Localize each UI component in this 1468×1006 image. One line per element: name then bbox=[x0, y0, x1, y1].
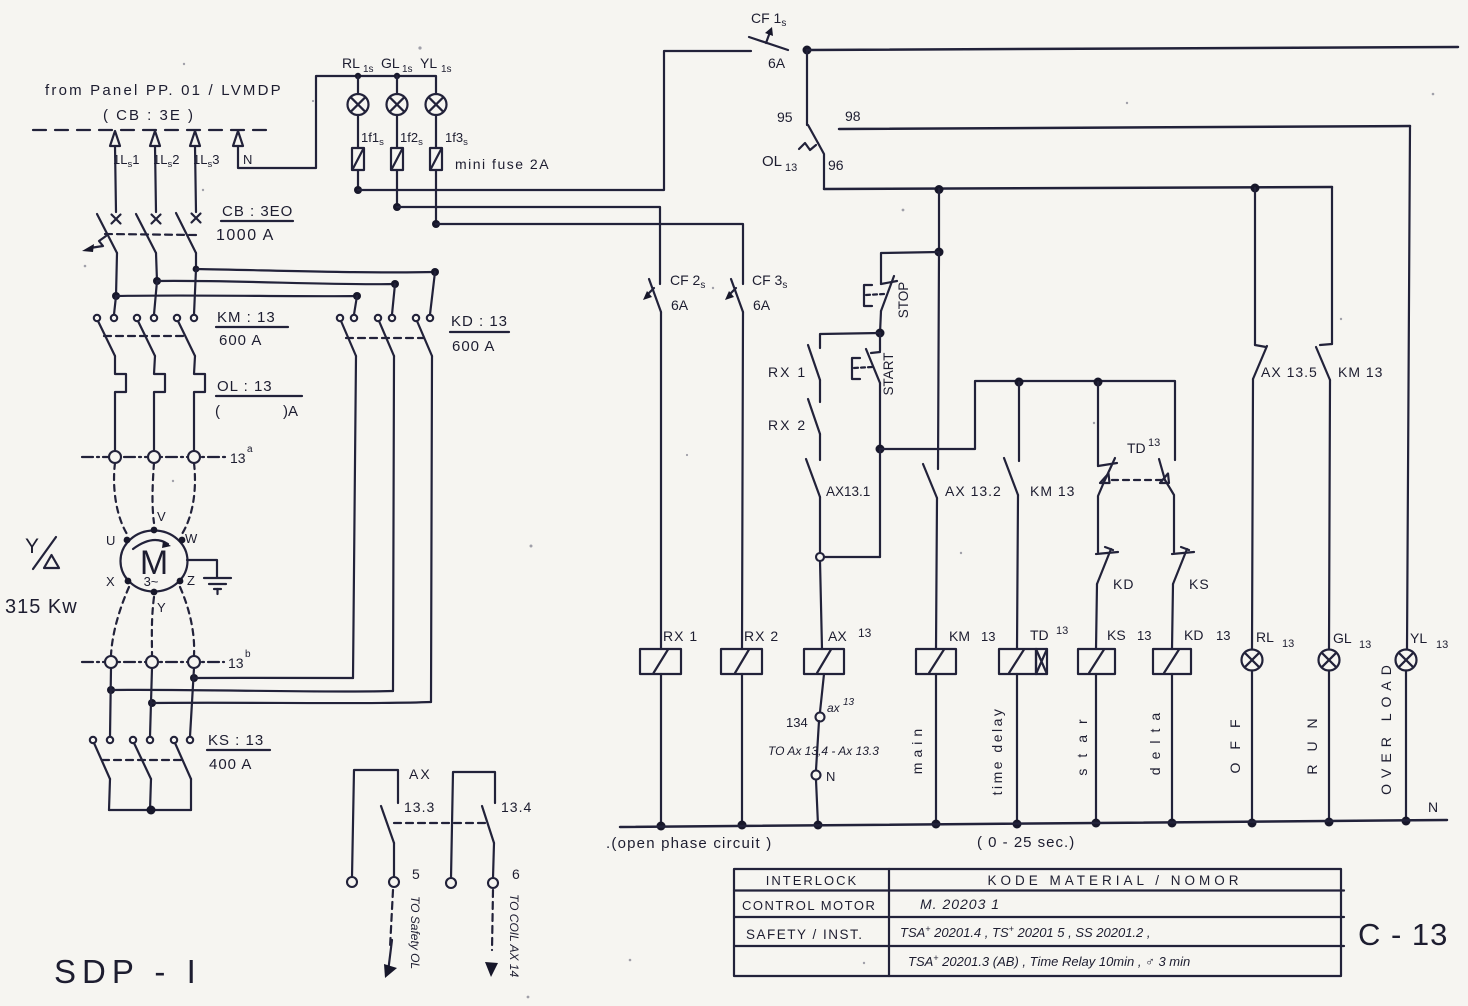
svg-text:3~: 3~ bbox=[144, 574, 159, 589]
svg-text:INTERLOCK: INTERLOCK bbox=[766, 873, 858, 888]
CB trip arrow bbox=[82, 236, 106, 252]
svg-text:5: 5 bbox=[412, 866, 420, 882]
svg-text:Y: Y bbox=[25, 535, 39, 558]
svg-text:time delay: time delay bbox=[989, 707, 1005, 796]
label OL:13 ( )A overload heaters bbox=[215, 378, 302, 420]
lamp GL1s bbox=[381, 55, 413, 148]
svg-text:GL: GL bbox=[1333, 630, 1352, 646]
contact RX1 (NO) bbox=[768, 345, 820, 402]
svg-text:13: 13 bbox=[1436, 639, 1448, 651]
svg-text:ax: ax bbox=[827, 701, 841, 715]
KS star point bus bbox=[109, 806, 191, 815]
svg-text:.(open phase circuit ): .(open phase circuit ) bbox=[606, 835, 772, 852]
wire lamp1 column to CF1s bbox=[354, 51, 751, 194]
wire rail to STOP branch bbox=[881, 189, 944, 284]
KM mechanical linkage bbox=[104, 335, 186, 337]
svg-text:13.4: 13.4 bbox=[501, 799, 532, 815]
svg-text:KD: KD bbox=[1184, 627, 1203, 643]
svg-text:b: b bbox=[245, 649, 251, 660]
svg-text:CB : 3EO: CB : 3EO bbox=[222, 203, 293, 220]
wire CB pole1 to lamp1 column bbox=[112, 292, 361, 300]
contactor coil KD13 (delta) bbox=[1147, 627, 1230, 828]
terminal row 13a bbox=[82, 444, 253, 466]
svg-text:star: star bbox=[1074, 708, 1090, 775]
fuse 1f2s bbox=[391, 130, 423, 207]
timer contact TD13 right (to KD) bbox=[1159, 459, 1174, 552]
svg-text:KM 13: KM 13 bbox=[1338, 364, 1383, 380]
svg-text:)A: )A bbox=[283, 403, 298, 420]
svg-text:V: V bbox=[157, 509, 166, 524]
svg-text:YL: YL bbox=[1410, 630, 1427, 646]
label KD:13 600A bbox=[450, 313, 509, 355]
svg-text:TO Safety OL: TO Safety OL bbox=[408, 896, 422, 969]
svg-text:1s: 1s bbox=[441, 64, 452, 75]
svg-text:13: 13 bbox=[1056, 625, 1068, 637]
svg-text:400 A: 400 A bbox=[209, 756, 252, 773]
wire lamp2 column to CF2s bbox=[393, 203, 660, 284]
svg-text:13: 13 bbox=[1148, 437, 1160, 449]
svg-text:600 A: 600 A bbox=[219, 332, 262, 349]
svg-text:RL: RL bbox=[1256, 629, 1274, 645]
svg-text:Y: Y bbox=[157, 600, 166, 615]
contactor KD:13 pole 2 bbox=[375, 284, 395, 691]
wire CF2s to coil RX1 bbox=[660, 312, 662, 649]
label KS:13 400A bbox=[207, 732, 270, 773]
svg-text:13: 13 bbox=[1216, 628, 1230, 643]
contactor coil KS13 (star) bbox=[1074, 627, 1151, 828]
svg-text:RUN: RUN bbox=[1304, 705, 1320, 774]
svg-text:delta: delta bbox=[1147, 705, 1163, 775]
svg-text:TSA+ 20201.3 (AB) , Time Re: TSA+ 20201.3 (AB) , Time Relay 10min , ♂… bbox=[908, 953, 1190, 969]
svg-text:STOP: STOP bbox=[896, 282, 911, 319]
svg-text:OVER LOAD: OVER LOAD bbox=[1378, 659, 1394, 795]
fuse 1f1s bbox=[352, 130, 384, 190]
svg-text:( 0 - 25 sec.): ( 0 - 25 sec.) bbox=[977, 834, 1075, 851]
KD mechanical linkage bbox=[346, 337, 424, 339]
terminal N below coil AX13 bbox=[812, 769, 836, 830]
timer contact TD13 left (to KS) bbox=[1098, 382, 1117, 552]
svg-text:C - 13: C - 13 bbox=[1358, 917, 1448, 952]
lamp YL13 (OVER LOAD) bbox=[1378, 630, 1448, 826]
self-hold wire START to TD/KM columns bbox=[880, 378, 1175, 461]
svg-text:TSA+ 20201.4 , TS+ 20201 5 ,: TSA+ 20201.4 , TS+ 20201 5 , SS 20201.2 … bbox=[900, 924, 1151, 940]
node 1Ls3 tap arrow bbox=[190, 131, 219, 170]
svg-text:98: 98 bbox=[845, 108, 861, 124]
svg-text:OL : 13: OL : 13 bbox=[217, 378, 273, 395]
label KM:13 600A bbox=[216, 309, 288, 349]
label CB:3EO 1000A bbox=[216, 203, 293, 244]
node N tap arrow bbox=[233, 131, 252, 167]
svg-text:START: START bbox=[881, 352, 896, 395]
label TD 13 (contact) bbox=[1127, 437, 1160, 456]
svg-text:1s: 1s bbox=[402, 64, 413, 75]
contactor KM:13 pole 2 bbox=[134, 281, 165, 451]
svg-text:TD: TD bbox=[1030, 627, 1049, 643]
node 1Ls1 tap arrow bbox=[110, 131, 139, 170]
svg-text:KD: KD bbox=[1113, 576, 1134, 592]
svg-text:KM 13: KM 13 bbox=[1030, 483, 1075, 499]
svg-text:KS: KS bbox=[1107, 627, 1126, 643]
svg-text:1000 A: 1000 A bbox=[216, 227, 275, 244]
overload relay contact OL13 95-96 bbox=[762, 50, 844, 189]
relay coil AX13 bbox=[804, 626, 872, 674]
contact KM13 aux (NO) bbox=[1004, 382, 1075, 649]
contact AX13.1 (NO) bbox=[806, 459, 870, 553]
node AX13 coil junction bbox=[816, 449, 880, 649]
svg-text:RX 1: RX 1 bbox=[768, 364, 807, 380]
terminal 134 / ax13 below coil AX13 bbox=[786, 674, 855, 770]
wire lamp3 column to CF3s bbox=[432, 220, 743, 284]
wire neutral N to lamp rail bbox=[238, 76, 436, 168]
wire CB pole3 to lamp3 column bbox=[193, 266, 439, 276]
svg-text:SAFETY / INST.: SAFETY / INST. bbox=[746, 927, 864, 942]
relay coil RX1 bbox=[640, 628, 698, 674]
lamp RL1s bbox=[342, 55, 374, 148]
circuit breaker CB:3EO pole 3 bbox=[176, 146, 201, 269]
rail 98 (overload signal) bbox=[839, 108, 1410, 129]
circuit breaker CB:3EO pole 1 bbox=[97, 146, 121, 296]
wire 13b phase2 to KD pole3 bbox=[148, 699, 431, 707]
pushbutton START (NO) bbox=[852, 333, 896, 454]
svg-text:6A: 6A bbox=[753, 297, 771, 313]
TD13 linkage bbox=[1112, 479, 1163, 481]
svg-text:AX 13.2: AX 13.2 bbox=[945, 483, 1002, 499]
svg-text:96: 96 bbox=[828, 157, 844, 173]
svg-text:134: 134 bbox=[786, 715, 808, 730]
feeder dashed bus CB:3E bbox=[33, 129, 268, 131]
svg-text:13: 13 bbox=[1137, 628, 1151, 643]
contactor coil KM13 bbox=[909, 628, 995, 829]
motor cable Y to 13b bbox=[152, 597, 154, 655]
svg-text:AX: AX bbox=[409, 766, 432, 782]
control rail top (after CF1s) bbox=[807, 47, 1458, 50]
svg-text:GL: GL bbox=[381, 55, 400, 71]
svg-text:13: 13 bbox=[1359, 639, 1371, 651]
svg-text:(: ( bbox=[215, 403, 220, 420]
svg-text:RX 1: RX 1 bbox=[663, 628, 698, 644]
svg-text:AX13.1: AX13.1 bbox=[826, 484, 870, 499]
wire 13b phase3 to KD pole1 bbox=[190, 674, 353, 682]
relay coil RX2 bbox=[721, 628, 779, 674]
fuse 1f3s bbox=[430, 130, 468, 224]
svg-text:KODE MATERIAL / NOMOR: KODE MATERIAL / NOMOR bbox=[987, 873, 1242, 888]
svg-text:X: X bbox=[106, 574, 115, 589]
wire CB pole2 to lamp2 column bbox=[153, 277, 399, 288]
svg-text:315 Kw: 315 Kw bbox=[5, 596, 78, 618]
svg-text:KM : 13: KM : 13 bbox=[217, 309, 276, 326]
svg-text:13: 13 bbox=[1282, 638, 1294, 650]
svg-text:OFF: OFF bbox=[1227, 707, 1243, 774]
node 1Ls2 tap arrow bbox=[150, 131, 179, 170]
wire coil RX2 to N rail bbox=[738, 674, 747, 830]
svg-text:13: 13 bbox=[785, 162, 797, 174]
svg-text:N: N bbox=[826, 769, 835, 784]
AX 13.3/13.4 linkage bbox=[394, 822, 487, 824]
wire CF3s to coil RX2 bbox=[742, 312, 743, 649]
control rail 96 bbox=[824, 184, 1332, 195]
svg-text:13.3: 13.3 bbox=[404, 799, 435, 815]
junction dot lamp rail GL1s bbox=[394, 73, 400, 79]
contact AX13.2 (NO) bbox=[923, 464, 1002, 649]
auxiliary contact AX 13.3 bbox=[347, 766, 435, 887]
svg-text:KD : 13: KD : 13 bbox=[451, 313, 508, 330]
contactor KM:13 pole 3 bbox=[174, 269, 205, 451]
svg-text:95: 95 bbox=[777, 109, 793, 125]
wire rail 98 to YL13 lamp bbox=[1407, 126, 1410, 649]
contact KS interlock (NC) bbox=[1172, 547, 1210, 649]
svg-text:6A: 6A bbox=[768, 55, 786, 71]
svg-text:SDP - I: SDP - I bbox=[54, 953, 202, 990]
svg-text:W: W bbox=[185, 531, 198, 546]
junction dot lamp rail RL1s bbox=[355, 73, 361, 79]
lamp GL13 (RUN) bbox=[1304, 630, 1371, 827]
pushbutton STOP (NC) bbox=[864, 276, 911, 338]
neutral rail N (bottom) bbox=[620, 799, 1447, 827]
auxiliary contact AX 13.4 bbox=[446, 772, 532, 888]
svg-text:RX 2: RX 2 bbox=[744, 628, 779, 644]
lead to coil AX 14 (arrow) bbox=[485, 890, 521, 977]
contact RX2 (NO) bbox=[768, 399, 820, 460]
lead to safety OL (arrow) bbox=[384, 890, 422, 978]
svg-text:YL: YL bbox=[420, 55, 437, 71]
disconnect CF3s 6A bbox=[725, 272, 787, 313]
svg-text:( CB : 3E ): ( CB : 3E ) bbox=[103, 107, 195, 124]
wire STOP node to RX1 contact chain bbox=[820, 333, 880, 348]
svg-text:13: 13 bbox=[858, 626, 872, 640]
title block table bbox=[734, 869, 1344, 976]
svg-text:CONTROL MOTOR: CONTROL MOTOR bbox=[742, 898, 876, 913]
terminal row 13b bbox=[82, 649, 251, 671]
contact KM13 (NO, RUN lamp) bbox=[1316, 187, 1383, 649]
svg-text:RX 2: RX 2 bbox=[768, 417, 807, 433]
wire rail to AX13.2 contact bbox=[938, 252, 939, 469]
motor cable 13a to W bbox=[182, 463, 195, 534]
svg-text:RL: RL bbox=[342, 55, 360, 71]
timer coil TD13 bbox=[989, 625, 1068, 829]
svg-text:a: a bbox=[247, 444, 253, 455]
contactor KS:13 pole 3 bbox=[171, 668, 194, 810]
disconnect CF2s 6A bbox=[643, 272, 705, 313]
svg-text:TO COIL AX 14: TO COIL AX 14 bbox=[507, 894, 521, 977]
svg-text:TO Ax 13,4 - Ax 13.3: TO Ax 13,4 - Ax 13.3 bbox=[768, 744, 879, 758]
svg-text:M. 20203 1: M. 20203 1 bbox=[920, 896, 1000, 912]
motor cable 13a to U bbox=[114, 463, 127, 534]
svg-text:KS : 13: KS : 13 bbox=[208, 732, 264, 749]
lamp YL1s bbox=[420, 55, 452, 148]
svg-text:1s: 1s bbox=[363, 64, 374, 75]
svg-text:U: U bbox=[106, 533, 115, 548]
svg-text:AX: AX bbox=[828, 628, 847, 644]
contactor KM:13 pole 1 bbox=[94, 296, 126, 451]
CB mechanical linkage bbox=[105, 234, 197, 235]
svg-text:KS: KS bbox=[1189, 576, 1210, 592]
wire coil RX1 to N rail bbox=[657, 674, 666, 831]
disconnect CF1s 6A bbox=[749, 10, 812, 71]
svg-text:AX 13.5: AX 13.5 bbox=[1261, 364, 1318, 380]
svg-text:600 A: 600 A bbox=[452, 338, 495, 355]
contactor KD:13 pole 3 bbox=[413, 272, 435, 702]
svg-text:Z: Z bbox=[187, 573, 195, 588]
motor M 3~ bbox=[106, 509, 198, 615]
svg-text:13: 13 bbox=[981, 629, 995, 644]
contactor KS:13 pole 2 bbox=[130, 668, 153, 810]
svg-text:6A: 6A bbox=[671, 297, 689, 313]
svg-text:main: main bbox=[909, 724, 925, 774]
KS mechanical linkage bbox=[102, 759, 182, 761]
svg-text:13: 13 bbox=[228, 655, 244, 671]
svg-text:N: N bbox=[1428, 799, 1438, 815]
svg-text:6: 6 bbox=[512, 866, 520, 882]
svg-text:from Panel PP. 01 / LVMDP: from Panel PP. 01 / LVMDP bbox=[45, 82, 283, 99]
lamp RL13 (OFF) bbox=[1227, 629, 1294, 828]
svg-text:13: 13 bbox=[230, 450, 246, 466]
contact KD interlock (NC) bbox=[1096, 547, 1134, 649]
contactor KD:13 pole 1 bbox=[337, 296, 357, 678]
motor cable Z to 13b bbox=[180, 587, 194, 655]
svg-text:OL: OL bbox=[762, 153, 782, 170]
svg-text:N: N bbox=[243, 152, 252, 167]
motor earth ground bbox=[187, 560, 231, 594]
contactor KS:13 pole 1 bbox=[90, 668, 113, 810]
wire 13b phase1 to KD pole2 bbox=[107, 686, 393, 694]
svg-text:KM: KM bbox=[949, 628, 970, 644]
motor cable X to 13b bbox=[111, 587, 129, 655]
motor cable 13a to V bbox=[153, 463, 155, 523]
circuit breaker CB:3EO pole 2 bbox=[136, 146, 161, 281]
svg-text:mini fuse 2A: mini fuse 2A bbox=[455, 156, 550, 172]
svg-text:TD: TD bbox=[1127, 440, 1146, 456]
svg-text:13: 13 bbox=[843, 697, 855, 708]
contact AX13.5 (NO, OFF lamp) bbox=[1252, 188, 1318, 649]
label Y/delta star-delta bbox=[25, 535, 59, 569]
